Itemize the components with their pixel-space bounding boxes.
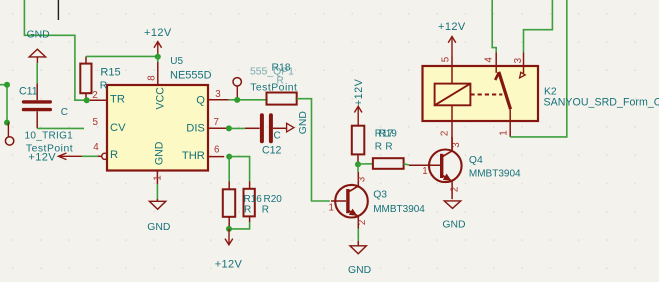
- svg-text:C: C: [61, 107, 68, 118]
- resistor R17: [373, 158, 404, 169]
- svg-text:NE555D: NE555D: [170, 70, 212, 82]
- svg-text:C11: C11: [19, 85, 38, 97]
- ground symbol (Q4): [444, 201, 460, 209]
- svg-text:R: R: [244, 204, 251, 215]
- svg-text:+12V: +12V: [215, 259, 243, 271]
- resistor R20: [244, 182, 255, 223]
- transistor Q3 MMBT3904: [331, 172, 368, 229]
- pin 4 RESET with bubble: [98, 153, 108, 159]
- graphic line (black): [57, 0, 59, 20]
- relay pin 5: [451, 56, 453, 84]
- hierarchical label GND (triangle): [287, 123, 294, 132]
- relay pin 3: [523, 53, 525, 74]
- svg-text:3: 3: [513, 57, 524, 63]
- svg-text:3: 3: [356, 176, 367, 182]
- op-amp / IC U5 NE555D body: [107, 85, 208, 171]
- pin 2 TR: [90, 99, 107, 101]
- ground symbol (U5): [149, 201, 165, 209]
- wire junction to R17: [358, 163, 373, 165]
- svg-text:4: 4: [93, 142, 99, 153]
- power arrow +12V (R19): [354, 106, 362, 125]
- svg-text:3: 3: [215, 89, 221, 100]
- power +12V (left arrow): [58, 153, 82, 160]
- junction: [4, 120, 10, 126]
- wire to C11: [36, 63, 38, 83]
- svg-text:VCC: VCC: [155, 87, 167, 110]
- relay pin 2 down to Q4: [451, 105, 453, 150]
- svg-text:R18: R18: [272, 62, 291, 73]
- resistor R15: [80, 56, 91, 100]
- capacitor C12: [245, 115, 287, 141]
- pin 7 DIS: [208, 127, 227, 129]
- junction: [226, 125, 232, 131]
- relay coil: [435, 84, 471, 106]
- pin 1 GND of U5: [156, 171, 158, 185]
- svg-text:1: 1: [152, 175, 163, 180]
- svg-text:4: 4: [484, 57, 495, 63]
- svg-text:6: 6: [214, 144, 220, 155]
- svg-text:8: 8: [146, 75, 157, 81]
- wire from relay pin 1: [510, 0, 567, 137]
- svg-text:R16: R16: [244, 194, 263, 205]
- wire R18 to Q3 base: [297, 99, 330, 201]
- svg-text:THR: THR: [182, 150, 205, 162]
- wire left edge: [0, 85, 7, 123]
- svg-text:GND: GND: [147, 222, 170, 233]
- wire R17 to Q4 base: [404, 164, 409, 165]
- svg-text:+12V: +12V: [144, 27, 172, 39]
- svg-text:1: 1: [422, 166, 427, 177]
- junction at +12V: [155, 54, 161, 60]
- wire THR to R16: [228, 157, 230, 182]
- wire GND net from top: [24, 0, 84, 100]
- relay lever (switch): [495, 72, 510, 109]
- svg-text:GND: GND: [27, 30, 50, 41]
- svg-text:C: C: [274, 131, 281, 142]
- junction at Q3 collector: [355, 161, 361, 167]
- wire joining R16/R20 bottoms: [229, 222, 250, 229]
- svg-text:DIS: DIS: [186, 122, 205, 134]
- svg-text:+12V: +12V: [28, 151, 56, 163]
- ground symbol (up) at C11: [29, 49, 45, 63]
- relay NC contact (triangle): [520, 72, 526, 78]
- svg-text:GND: GND: [348, 265, 371, 276]
- test point TP (left): [5, 123, 13, 145]
- wire THR to R20: [229, 157, 249, 182]
- svg-text:Q: Q: [196, 94, 205, 106]
- resistor R18: [267, 93, 297, 105]
- svg-text:1: 1: [499, 130, 510, 135]
- svg-text:2: 2: [357, 220, 368, 225]
- relay pin 4: [495, 53, 497, 73]
- svg-text:5: 5: [440, 56, 451, 62]
- wire +12V row to R15: [86, 55, 158, 57]
- relay K2 body: [423, 66, 539, 121]
- wire junction down to Q3: [357, 164, 359, 172]
- svg-text:U5: U5: [170, 56, 183, 67]
- junction: [226, 154, 232, 160]
- svg-text:R19: R19: [379, 128, 398, 139]
- svg-text:GND: GND: [154, 141, 166, 165]
- capacitor C11: [24, 84, 51, 129]
- svg-text:R15: R15: [100, 67, 120, 79]
- wire Q to R18: [229, 99, 267, 101]
- junction at TR: [84, 97, 90, 103]
- ground symbol (Q3): [350, 246, 366, 254]
- wire to pin 4: [82, 155, 98, 157]
- wire to relay pin 4: [492, 0, 496, 53]
- svg-text:10_TRIG1: 10_TRIG1: [25, 130, 74, 141]
- svg-text:MMBT3904: MMBT3904: [373, 204, 425, 215]
- junction: [234, 97, 240, 103]
- pin 6 THR: [208, 156, 224, 158]
- resistor R19: [352, 126, 365, 165]
- svg-text:MMBT3904: MMBT3904: [469, 168, 521, 179]
- svg-text:TR: TR: [110, 94, 125, 106]
- svg-text:5: 5: [93, 117, 99, 128]
- svg-text:R: R: [385, 142, 392, 153]
- relay pin 1: [509, 109, 511, 137]
- relay dashed link: [470, 94, 502, 96]
- svg-text:R: R: [262, 204, 269, 215]
- svg-text:R: R: [100, 80, 108, 91]
- power +12V (down arrow): [225, 229, 233, 245]
- svg-text:+12V: +12V: [353, 78, 365, 106]
- pin 3 Q output: [208, 99, 229, 101]
- svg-text:2: 2: [450, 187, 461, 192]
- svg-text:C12: C12: [262, 144, 282, 156]
- pin 8 VCC: [157, 62, 159, 85]
- svg-text:R: R: [110, 149, 118, 161]
- svg-text:Q4: Q4: [469, 155, 483, 166]
- resistor R16: [223, 182, 235, 228]
- svg-text:1: 1: [329, 202, 334, 213]
- junction: [226, 226, 232, 232]
- wire Q3 emitter to ground: [357, 229, 359, 242]
- svg-text:Q3: Q3: [373, 190, 387, 201]
- test point TP2: [233, 78, 241, 97]
- wire to pin 8: [157, 57, 159, 62]
- svg-text:GND: GND: [442, 220, 465, 231]
- transistor Q4 MMBT3904: [409, 137, 462, 199]
- svg-text:2: 2: [440, 131, 451, 136]
- svg-text:SANYOU_SRD_Form_C: SANYOU_SRD_Form_C: [544, 96, 659, 108]
- svg-text:7: 7: [214, 117, 219, 128]
- wire DIS to C12: [229, 127, 245, 129]
- svg-text:R: R: [375, 142, 382, 153]
- wire 10_TRIG1: [37, 127, 84, 129]
- wire to relay pin 3: [524, 0, 553, 53]
- wire to ground: [156, 184, 158, 199]
- svg-text:CV: CV: [110, 122, 126, 134]
- svg-text:+12V: +12V: [438, 21, 466, 33]
- svg-text:2: 2: [92, 90, 97, 101]
- svg-text:GND: GND: [298, 111, 309, 134]
- svg-text:R20: R20: [264, 194, 283, 205]
- junction: [4, 82, 10, 88]
